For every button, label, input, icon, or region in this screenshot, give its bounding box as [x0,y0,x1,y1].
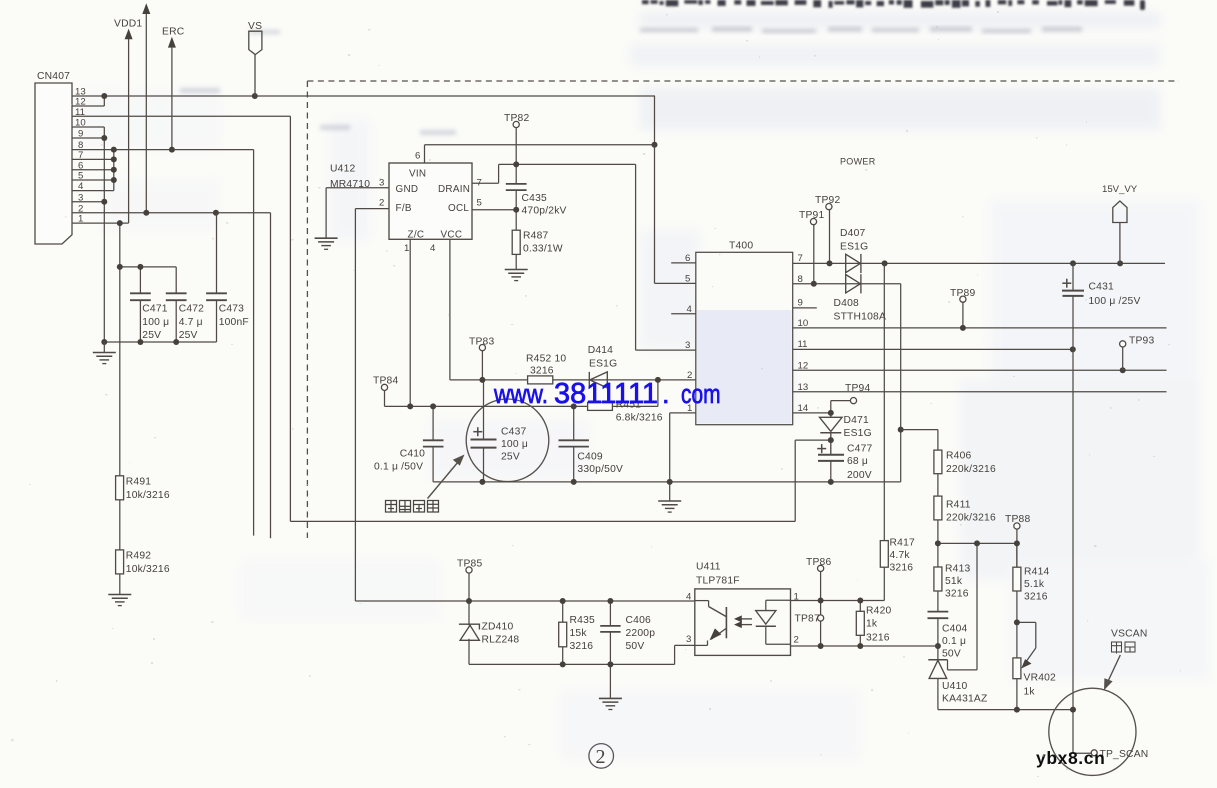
svg-text:10k/3216: 10k/3216 [126,564,170,575]
wire U412 pin5 OCL [472,209,516,211]
wire VCC net to T400 pin2 [410,239,696,406]
svg-text:2: 2 [794,635,799,646]
diode D408 [846,274,861,293]
junction dots T400 right area [811,260,1126,485]
svg-text:VS: VS [248,21,262,32]
wire T400 pin8 [793,283,861,285]
ground R487 [505,270,528,281]
svg-text:D408: D408 [834,298,859,309]
wire D408 output down to bus [861,284,901,482]
svg-text:4.7 μ: 4.7 μ [179,317,203,328]
svg-text:3: 3 [379,178,384,189]
light arrows [738,619,753,625]
wire T400 pin7 [793,262,861,264]
test point TP94 [850,398,856,404]
svg-text:www.: www. [493,379,548,409]
power arrow VDD1 [125,29,133,40]
wire T400 pin1 [670,413,696,482]
svg-text:25V: 25V [142,330,161,341]
faint blurred second text row [640,27,1082,33]
svg-text:com: com [681,379,721,409]
svg-text:U412: U412 [330,164,355,175]
wire F/B bottom net line [355,600,694,602]
svg-text:TP88: TP88 [1005,514,1030,525]
svg-text:C431: C431 [1089,281,1114,292]
wire bottom net [938,709,1073,711]
svg-text:4: 4 [686,592,692,603]
svg-text:MR4710: MR4710 [330,179,370,190]
capacitor C472 [166,267,187,342]
wire D407 to 15V rail [861,262,1165,264]
wire U412 pin6 to top net [425,145,655,163]
wire T400 pin9 stub [793,307,817,309]
svg-text:C435: C435 [522,193,547,204]
svg-text:C473: C473 [219,304,244,315]
svg-text:2: 2 [596,746,606,768]
svg-text:C477: C477 [847,444,872,455]
svg-text:3216: 3216 [945,588,969,599]
net tag VS [249,31,262,96]
potentiometer VR402 [1016,622,1018,658]
svg-text:3216: 3216 [866,632,890,643]
zener ZD410 [459,601,480,664]
svg-text:R492: R492 [126,551,151,562]
resistor R411 [937,474,939,496]
transistor inside U411 [695,601,727,646]
svg-text:100 μ: 100 μ [142,317,169,328]
transformer T400 [696,252,793,424]
svg-text:Z/C: Z/C [408,230,425,241]
wire U411 pin1 line [791,600,885,602]
svg-text:C437: C437 [501,426,526,437]
svg-text:1k: 1k [866,618,878,629]
svg-text:C409: C409 [577,451,602,462]
capacitor C477 [817,444,844,482]
capacitor C473 [104,213,227,342]
pin numbers CN407 [75,87,86,225]
svg-text:1k: 1k [1024,686,1036,697]
svg-text:VSCAN: VSCAN [1111,628,1147,639]
svg-text:R417: R417 [890,537,915,548]
svg-text:9: 9 [78,129,83,140]
svg-text:50V: 50V [942,648,961,659]
svg-text:C410: C410 [400,449,425,460]
capacitor C471 [120,267,176,342]
svg-text:5.1k: 5.1k [1024,579,1045,590]
svg-text:25V: 25V [179,330,198,341]
svg-text:68 μ: 68 μ [847,456,868,467]
resistor R435 [562,601,564,622]
svg-text:3216: 3216 [1024,591,1048,602]
wire pin5 [72,179,114,181]
power arrow unlabeled [142,3,150,14]
shunt regulator U410 [928,543,977,709]
svg-text:TP_SCAN: TP_SCAN [1100,749,1149,760]
svg-text:6.8k/3216: 6.8k/3216 [616,413,663,424]
svg-text:D471: D471 [844,415,869,426]
page number circle 2 [589,744,614,769]
ground U412 pin3 [315,238,338,249]
svg-text:R406: R406 [946,450,971,461]
capacitor C404 [928,591,949,659]
optocoupler U411 box [695,589,791,656]
svg-text:2: 2 [379,198,384,209]
svg-text:R414: R414 [1024,566,1049,577]
wire pin9 [72,137,104,139]
CJK voltage label approx [1112,642,1136,654]
svg-text:3: 3 [78,192,83,203]
svg-text:ES1G: ES1G [844,428,872,439]
resistor R452 [528,376,553,384]
fault arrow [428,459,462,499]
svg-text:ES1G: ES1G [589,359,617,370]
svg-text:OCL: OCL [448,203,469,214]
wire drain node to T400 pin3 [516,164,696,350]
svg-text:VCC: VCC [441,230,463,241]
svg-text:TP89: TP89 [950,288,975,299]
test point TP83 [479,345,485,351]
diode D414 [589,372,607,388]
svg-text:ERC: ERC [162,26,185,37]
svg-text:TP82: TP82 [504,113,529,124]
wire R487 to ground [515,254,517,269]
test point TP82 [513,121,519,127]
svg-text:10k/3216: 10k/3216 [126,490,170,501]
test point TP86 [818,565,824,571]
svg-text:.: . [662,379,670,409]
svg-text:C472: C472 [179,304,204,315]
svg-text:D414: D414 [588,345,613,356]
blue watermark www.3811111.com [493,378,720,410]
wire VDD- arrow tail unlabeled [145,14,147,213]
svg-text:4: 4 [78,181,84,192]
op-amp/regulator U412 box [389,163,472,239]
LED inside U411 [756,600,791,644]
svg-text:100 μ /25V: 100 μ /25V [1089,296,1141,307]
svg-text:5: 5 [477,198,482,209]
svg-text:7: 7 [798,253,803,264]
wire T400 pin12 line [793,369,1167,371]
svg-text:9: 9 [798,298,803,309]
svg-text:ES1G: ES1G [840,242,868,253]
svg-text:11: 11 [75,107,85,118]
junction dots bottom net [466,598,613,667]
wire U411 pin2 line [791,645,938,647]
svg-text:U411: U411 [696,561,721,572]
svg-text:12: 12 [75,97,86,108]
wire pin11 net [72,115,290,117]
svg-text:1: 1 [404,243,409,254]
test point TP84 [381,384,387,390]
svg-text:U410: U410 [942,681,967,692]
test point TP85 [466,567,472,573]
svg-text:TP87: TP87 [795,614,820,625]
wire R491-R492 [119,500,121,550]
junction dots connector area [101,93,257,226]
test point TP92 [826,204,832,210]
test point TP91 [810,219,816,225]
svg-text:100 μ: 100 μ [501,439,528,450]
wire pin10 [72,126,104,128]
wire pin7 [72,158,114,160]
wire T400 pin10 line [793,327,1167,329]
svg-text:3216: 3216 [890,562,914,573]
svg-text:0.1 μ: 0.1 μ [942,636,966,647]
svg-text:STTH108A: STTH108A [834,312,887,323]
junction dots bottom right area [935,540,1076,712]
test point TP88 [1014,523,1020,529]
svg-text:0.33/1W: 0.33/1W [523,244,563,255]
fault label (CJK approx) [386,501,439,513]
svg-text:DRAIN: DRAIN [438,184,470,195]
wire D471 cathode elbow to pin11 net line [795,440,831,521]
resistor R406 [901,430,938,451]
ground under cap bus [93,342,116,364]
svg-text:TP93: TP93 [1129,336,1154,347]
wire U412 pin7 DRAIN [472,164,516,183]
resistor R487 [512,230,520,254]
VSCAN pointer arrow [1107,655,1121,685]
capacitor C410 [423,406,444,482]
wire pin6 [72,169,114,171]
wire hot ground bus [433,482,901,501]
svg-text:4.7k: 4.7k [890,550,911,561]
resistor R413 [937,543,939,567]
svg-text:TP92: TP92 [815,195,840,206]
svg-text:5: 5 [78,171,83,182]
svg-text:6: 6 [415,151,420,162]
svg-text:3811111: 3811111 [554,378,658,410]
svg-text:51k: 51k [945,576,963,587]
svg-text:R420: R420 [866,605,891,616]
svg-text:VR402: VR402 [1024,672,1057,683]
wire T400 pin5 [655,145,696,284]
svg-text:R487: R487 [523,231,548,242]
wire T400 pin11 line [793,348,1073,350]
svg-text:220k/3216: 220k/3216 [946,513,996,524]
TP_SCAN marker [1091,750,1097,756]
wire T400 pin14 [793,412,831,414]
wire pin4 [72,190,114,192]
svg-text:3216: 3216 [530,366,554,377]
svg-text:GND: GND [396,184,419,195]
svg-text:470p/2kV: 470p/2kV [522,205,567,216]
ground mid bus [658,501,681,512]
svg-text:TLP781F: TLP781F [696,575,740,586]
capacitor C406 [600,601,620,698]
junction dots U411 output [818,598,864,650]
connector CN407 [35,83,72,244]
svg-text:KA431AZ: KA431AZ [942,693,987,704]
wire pin8 net [72,149,254,151]
fault highlight circle [466,399,549,482]
capacitor C435 [506,164,527,230]
svg-text:ZD410: ZD410 [482,621,514,632]
svg-text:TP86: TP86 [806,557,831,568]
capacitor C431 electrolytic [1062,279,1084,296]
capacitor C409 [559,406,589,482]
svg-text:3216: 3216 [570,641,594,652]
wire feedback net [385,380,658,407]
resistor R492 [116,550,124,574]
svg-text:11: 11 [798,339,808,350]
power arrow ERC [168,37,176,48]
svg-text:TP84: TP84 [373,376,398,387]
wire pin12 [72,105,104,107]
svg-text:3: 3 [686,634,691,645]
svg-text:T400: T400 [729,241,753,252]
svg-text:TP85: TP85 [457,558,482,569]
capacitor C437 electrolytic [471,380,497,482]
wire ERC tail [171,48,173,150]
wire U412 pin3 GND [326,188,389,238]
svg-text:12: 12 [798,360,809,371]
svg-text:R435: R435 [570,615,595,626]
svg-text:C404: C404 [942,623,967,634]
test point TP87 [818,615,824,621]
wire T400 pin4 stub [671,313,696,315]
svg-text:VDD1: VDD1 [114,19,142,30]
svg-text:ybx8.cn: ybx8.cn [1036,748,1105,768]
diode D471 [820,413,843,455]
wire bottom-left return to U411 pin3 [469,645,695,664]
svg-text:F/B: F/B [396,203,412,214]
junction dots mid area [407,377,673,485]
svg-text:C471: C471 [142,304,167,315]
svg-text:0.1 μ /50V: 0.1 μ /50V [374,461,423,472]
wire T400 pin13 line [793,391,1167,393]
svg-text:TP83: TP83 [469,336,494,347]
svg-text:C406: C406 [626,615,651,626]
svg-text:R411: R411 [946,500,971,511]
svg-text:1: 1 [78,214,83,225]
svg-text:D407: D407 [840,228,865,239]
svg-text:RLZ248: RLZ248 [482,634,520,645]
test point TP89 [960,296,966,302]
wire T400 pin6 stub [671,262,696,264]
resistor R417 [883,263,885,540]
svg-text:10: 10 [75,118,86,129]
svg-text:4: 4 [430,243,436,254]
svg-text:15V_VY: 15V_VY [1102,184,1138,195]
test point TP93 [1120,341,1126,347]
svg-text:220k/3216: 220k/3216 [946,464,996,475]
resistor R491 [116,476,124,500]
dashed box border [307,81,1179,538]
svg-text:200V: 200V [847,470,872,481]
ground under R492 [108,574,131,606]
svg-text:13: 13 [798,382,809,393]
wire pin3 [72,201,104,203]
diode D407 [846,254,861,273]
svg-text:50V: 50V [626,641,645,652]
wire feedback node line [938,542,1017,544]
resistor R420 [859,601,861,612]
svg-text:TP94: TP94 [845,383,870,394]
svg-text:R413: R413 [945,563,970,574]
wire pin13 net [72,95,655,97]
svg-text:2200p: 2200p [626,628,656,639]
svg-text:14: 14 [798,403,809,414]
resistor R451 [588,402,613,410]
wire pin1 net [72,222,129,224]
svg-text:R491: R491 [126,477,151,488]
svg-text:330p/50V: 330p/50V [577,464,623,475]
svg-text:15k: 15k [570,628,588,639]
VSCAN output circle [1049,688,1136,775]
svg-text:3: 3 [685,340,690,351]
svg-text:25V: 25V [501,452,520,463]
wire U412 pin2 F/B down to bottom net [355,209,389,601]
svg-text:TP91: TP91 [799,210,824,221]
svg-text:R452 10: R452 10 [526,354,566,365]
blurred cut-off text row at very top [642,0,1145,10]
svg-text:CN407: CN407 [37,71,70,82]
resistor R414 [1016,543,1018,567]
wire C431 vertical / VSCAN feed [1073,263,1091,753]
svg-text:POWER: POWER [840,157,876,167]
wire pin2 net [72,212,271,214]
svg-text:VIN: VIN [409,169,426,180]
ground C406 [599,698,622,709]
